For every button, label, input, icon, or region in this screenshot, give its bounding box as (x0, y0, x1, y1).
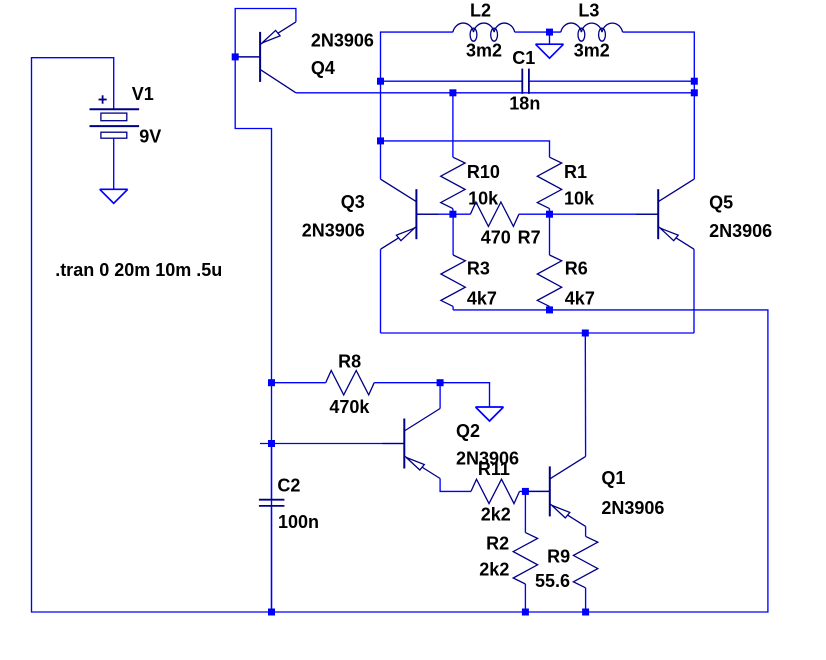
wire R9 bottom lead (585, 588, 587, 612)
transistor Q2 2N3906 (PNP) (403, 419, 405, 469)
node L2/L3 junction (546, 29, 553, 36)
svg-text:2k2: 2k2 (479, 560, 509, 580)
svg-text:2N3906: 2N3906 (302, 221, 365, 241)
node R6 bottom junction (546, 306, 553, 313)
transistor Q2 base lead (382, 443, 404, 445)
wire R6 top lead (549, 214, 551, 255)
wire R11 right lead (520, 490, 526, 492)
wire Q4 base junction down, jog right, down to bottom rail (235, 57, 271, 612)
wire Q3 base to R7 left lead (416, 213, 470, 215)
wire Q2 base (260, 443, 404, 445)
capacitor C2 (259, 499, 285, 501)
wire Q1 emitter to R9 (585, 526, 587, 536)
svg-text:R10: R10 (467, 162, 500, 182)
node Q2 base junction (268, 440, 275, 447)
svg-text:3m2: 3m2 (466, 41, 502, 61)
ground below V1 (100, 188, 128, 190)
svg-text:100n: 100n (278, 512, 319, 532)
wire R10 bottom lead (452, 209, 454, 215)
transistor Q3 base lead (416, 213, 438, 215)
transistor Q5 base lead (636, 213, 658, 215)
wire lower net horizontal (381, 332, 695, 334)
node R8 right junction (437, 379, 444, 386)
svg-text:10k: 10k (564, 189, 595, 209)
svg-text:10k: 10k (468, 189, 499, 209)
wire R7 right lead to Q5 base (519, 213, 658, 215)
transistor Q4 2N3906 (PNP, emitter up) (259, 32, 261, 82)
wire R8 left lead (272, 382, 326, 384)
transistor Q4 base lead (238, 56, 260, 58)
wire R8 right lead (374, 382, 440, 384)
node Q4 base junction (232, 53, 239, 60)
svg-text:R1: R1 (564, 162, 587, 182)
wire ground stem at top (549, 32, 551, 44)
wire between L2 and L3 (515, 31, 561, 33)
svg-text:Q1: Q1 (601, 468, 625, 488)
wire Q3 emitter down to lower net (380, 249, 382, 333)
wire Q4 collector output net (296, 92, 694, 94)
svg-text:Q5: Q5 (709, 192, 733, 212)
svg-text:2N3906: 2N3906 (311, 31, 374, 51)
svg-text:470k: 470k (329, 397, 370, 417)
svg-text:55.6: 55.6 (535, 571, 570, 591)
resistor R8 (326, 371, 375, 395)
svg-text:R7: R7 (518, 227, 541, 247)
wire cross feed to R1 top (381, 141, 550, 157)
node x380.5 upper junction (377, 78, 384, 85)
wire Q5 emitter down to lower net (693, 249, 695, 333)
svg-text:4k7: 4k7 (467, 289, 497, 309)
svg-text:C1: C1 (512, 48, 535, 68)
wire Q4 emitter loop to base (235, 9, 296, 57)
wire R10 top lead (452, 93, 454, 157)
ground at L2/L3 junction (536, 43, 564, 45)
inductor L2 (453, 23, 474, 32)
node base junction left (449, 211, 456, 218)
transistor Q3 2N3906 (PNP, mirrored) (415, 189, 417, 239)
resistor R3 (441, 255, 465, 306)
battery V1 (90, 108, 140, 110)
node base junction right (546, 211, 553, 218)
resistor R6 (537, 255, 561, 306)
wire Q1 base (525, 490, 549, 492)
wire C1 left (381, 80, 523, 82)
svg-text:Q3: Q3 (341, 192, 365, 212)
node R8 left junction (268, 379, 275, 386)
wire V+ rail: V1 top, left rail, bottom rail, right riser to R3/R6 bottom wire (32, 58, 768, 612)
svg-text:C2: C2 (277, 475, 300, 495)
wire R2 bottom lead (524, 584, 526, 612)
node lower net junction to Q1 collector (582, 330, 589, 337)
wire Q2 emitter to R11 left lead (440, 479, 471, 492)
svg-text:9V: 9V (139, 127, 161, 147)
node right riser upper junction (691, 78, 698, 85)
wire C1 right (529, 80, 694, 82)
svg-text:V1: V1 (132, 84, 154, 104)
node R2 bottom junction (522, 609, 529, 616)
svg-text:470: 470 (481, 227, 511, 247)
resistor R1 (537, 157, 561, 208)
wire L3 right down to Q5 collector (623, 32, 695, 179)
wire R3 bottom lead (452, 306, 454, 310)
svg-text:Q4: Q4 (311, 58, 335, 78)
node C2 bottom junction (268, 609, 275, 616)
node R9 bottom junction (582, 609, 589, 616)
resistor R9 (573, 536, 597, 587)
resistor R11 (471, 479, 520, 503)
svg-text:2k2: 2k2 (481, 505, 511, 525)
resistor R10 (441, 157, 465, 208)
wire V1 minus lead (113, 138, 115, 189)
wire Q2 collector riser (439, 383, 441, 409)
wire C2 bottom lead (271, 507, 273, 612)
resistor R7 (470, 202, 519, 226)
node right riser lower junction (691, 89, 698, 96)
svg-text:18n: 18n (509, 93, 540, 113)
wire R2 top lead (524, 491, 526, 532)
inductor L3 (561, 23, 582, 32)
wire Q1 collector riser (584, 333, 586, 456)
svg-text:Q2: Q2 (456, 421, 480, 441)
capacitor C1 (521, 69, 523, 94)
resistor R2 (513, 533, 537, 584)
svg-text:L3: L3 (578, 1, 599, 21)
svg-text:.tran 0 20m 10m .5u: .tran 0 20m 10m .5u (55, 260, 222, 280)
svg-text:4k7: 4k7 (565, 289, 595, 309)
svg-text:R2: R2 (486, 534, 509, 554)
wire to ground stub right of R8 (440, 383, 489, 407)
wire R6 bottom lead (549, 306, 551, 310)
node R10 top junction (449, 89, 456, 96)
svg-text:R3: R3 (467, 259, 490, 279)
node x380.5 lower junction (377, 137, 384, 144)
node R11/Q1 base junction (522, 488, 529, 495)
transistor Q1 2N3906 (PNP) (549, 466, 551, 516)
svg-text:3m2: 3m2 (574, 41, 610, 61)
svg-text:R6: R6 (565, 259, 588, 279)
wire R1 bottom lead (549, 209, 551, 215)
transistor Q5 2N3906 (PNP) (657, 189, 659, 239)
svg-text:2N3906: 2N3906 (709, 221, 772, 241)
svg-text:R9: R9 (547, 547, 570, 567)
ground right of R8 (476, 406, 504, 408)
transistor Q1 base lead (528, 490, 550, 492)
wire top net riser x380.5 down to Q3 collector (381, 32, 453, 179)
wire C2 top lead (271, 444, 273, 500)
svg-text:2N3906: 2N3906 (601, 498, 664, 518)
wire R3 top lead (452, 214, 454, 255)
wire Q4 base to junction (235, 56, 260, 58)
svg-text:R11: R11 (478, 459, 510, 479)
svg-text:L2: L2 (470, 1, 491, 21)
svg-text:R8: R8 (338, 351, 361, 371)
